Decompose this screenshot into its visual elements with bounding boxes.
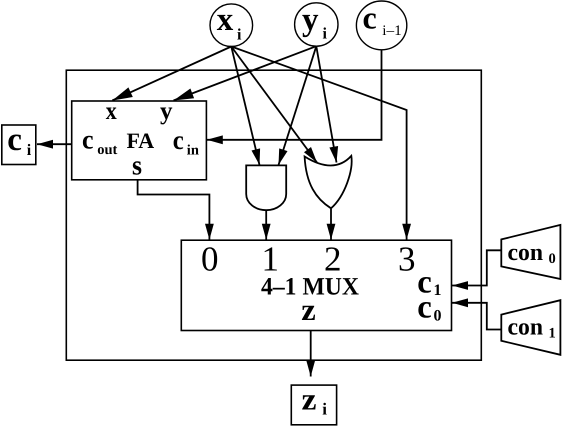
wire yi to AND right	[279, 46, 317, 165]
node yi circle	[295, 3, 338, 46]
arrowhead into FA cin	[207, 135, 223, 144]
AND gate	[246, 165, 286, 210]
svg-text:c: c	[417, 290, 432, 326]
svg-text:z: z	[301, 292, 316, 327]
arrowhead into ci box	[37, 140, 53, 149]
wire con0 to mux c1	[452, 250, 501, 285]
con1 trapezoid	[501, 300, 560, 355]
svg-text:0: 0	[201, 239, 219, 278]
arrowhead into mux c1	[452, 281, 468, 290]
svg-text:s: s	[132, 151, 142, 182]
arrowhead into OR right	[329, 146, 338, 163]
arrowhead into AND right	[279, 148, 288, 165]
mux 4-1 box	[181, 240, 451, 330]
wire xi to OR left	[231, 47, 317, 163]
svg-text:c: c	[363, 0, 377, 36]
svg-text:1: 1	[434, 282, 442, 299]
node ci-1 circle	[356, 1, 406, 50]
svg-text:c: c	[7, 122, 22, 158]
ci output box	[2, 125, 36, 165]
svg-text:i: i	[237, 27, 242, 44]
zi output box	[291, 385, 336, 425]
svg-text:0: 0	[434, 308, 442, 325]
wire FA cout to ci box	[37, 143, 72, 145]
arrowhead into mux input1	[262, 224, 271, 240]
arrowhead into mux c0	[452, 298, 468, 307]
wire yi to OR right	[316, 46, 336, 162]
svg-text:z: z	[302, 382, 317, 417]
svg-text:i–1: i–1	[382, 23, 402, 39]
wire con1 to mux c0	[452, 303, 501, 330]
wire mux z out to zi box	[310, 331, 312, 377]
svg-text:2: 2	[324, 239, 342, 278]
svg-text:c: c	[82, 125, 94, 155]
wire xi to FA x	[112, 47, 231, 101]
svg-text:i: i	[322, 400, 327, 419]
arrowhead into OR left	[304, 147, 317, 163]
arrowhead into FA x	[112, 87, 133, 100]
OR gate	[305, 156, 352, 208]
svg-text:out: out	[97, 142, 117, 158]
wire AND out to mux input1	[265, 210, 267, 240]
arrowhead into mux input0	[205, 224, 214, 240]
arrowhead into AND left	[252, 148, 261, 165]
svg-text:y: y	[160, 98, 173, 125]
svg-text:1: 1	[549, 326, 556, 342]
svg-text:con: con	[508, 240, 544, 266]
svg-text:3: 3	[398, 239, 416, 278]
outer box	[66, 70, 481, 360]
svg-text:1: 1	[262, 239, 280, 278]
wire yi to FA y	[174, 46, 317, 100]
wire OR out to mux input2	[330, 209, 332, 240]
wire xi to mux input3	[231, 47, 406, 240]
svg-text:c: c	[173, 125, 184, 155]
wire ci-1 to FA cin	[207, 50, 382, 139]
wire xi to AND left	[231, 47, 259, 166]
svg-text:x: x	[106, 98, 117, 125]
wire FA s to mux input0	[138, 180, 210, 240]
svg-text:y: y	[302, 2, 319, 38]
node xi circle	[210, 4, 253, 47]
full adder FA box	[72, 101, 207, 180]
arrowhead into mux input3	[402, 224, 411, 240]
arrowhead into FA y	[174, 89, 195, 101]
svg-text:0: 0	[549, 251, 556, 267]
svg-text:i: i	[27, 142, 32, 159]
svg-text:x: x	[217, 2, 234, 38]
svg-text:in: in	[187, 143, 199, 159]
arrowhead into zi box	[306, 361, 315, 377]
svg-text:con: con	[508, 315, 544, 341]
con0 trapezoid	[501, 225, 560, 279]
svg-text:FA: FA	[127, 128, 155, 153]
arrowhead into mux input2	[327, 224, 336, 240]
svg-text:i: i	[323, 26, 328, 43]
